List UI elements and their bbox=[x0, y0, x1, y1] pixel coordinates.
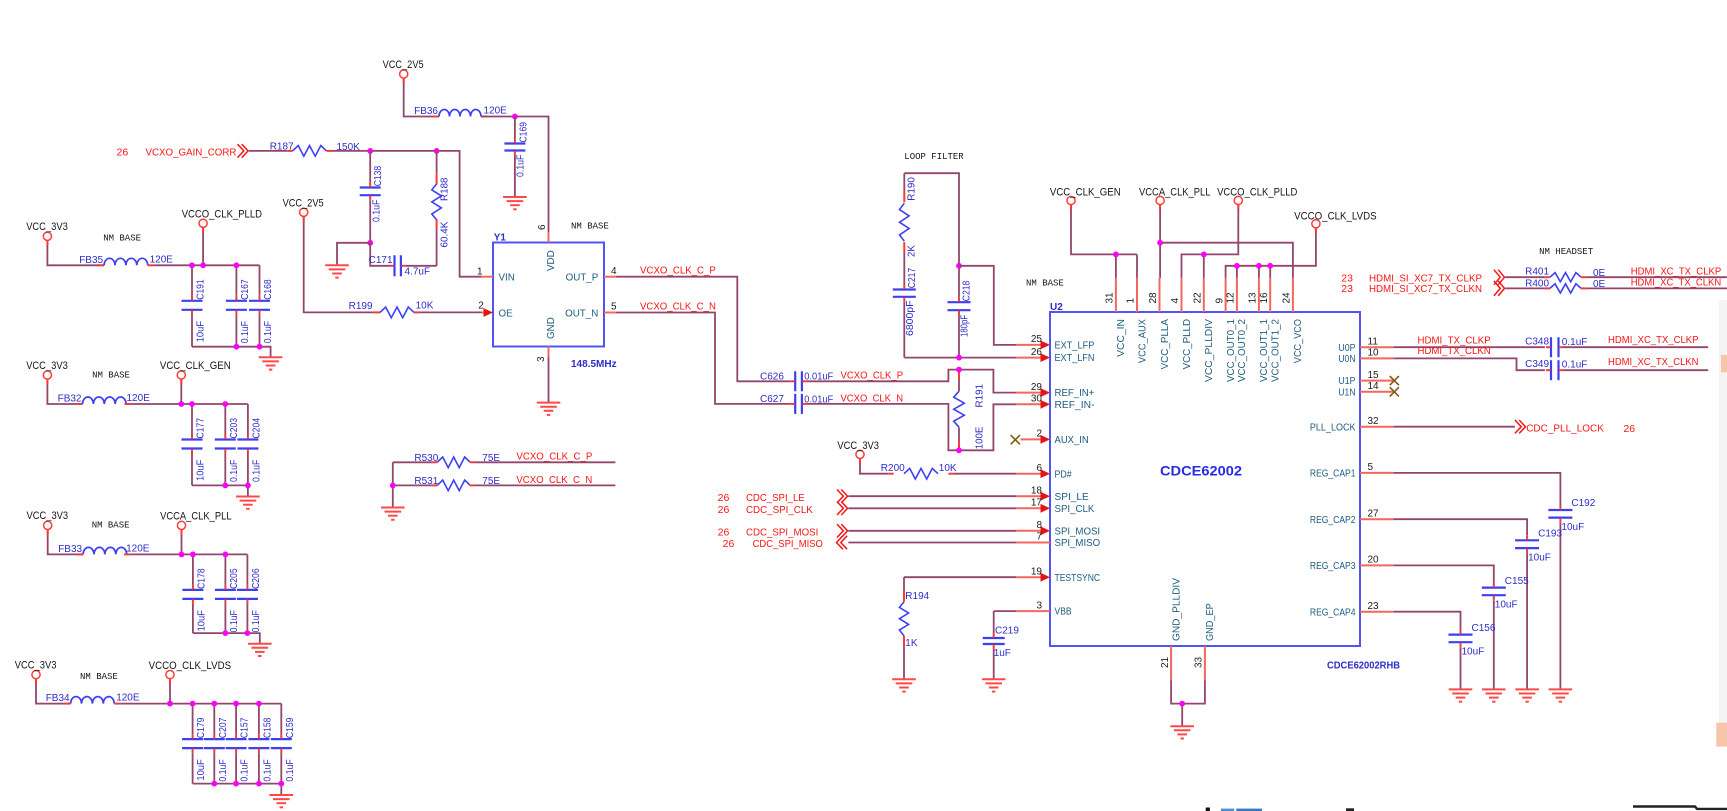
svg-text:120E: 120E bbox=[116, 693, 140, 704]
resistor R194 1K bbox=[903, 577, 905, 590]
svg-text:28: 28 bbox=[1148, 292, 1159, 304]
ground (Y1) bbox=[537, 403, 561, 415]
svg-text:C168: C168 bbox=[263, 279, 274, 300]
svg-text:10K: 10K bbox=[939, 463, 957, 474]
svg-text:C159: C159 bbox=[285, 717, 296, 738]
junction dots bottom rail bbox=[222, 483, 228, 489]
svg-text:VCXO_GAIN_CORR: VCXO_GAIN_CORR bbox=[146, 147, 237, 159]
svg-text:26: 26 bbox=[117, 146, 129, 158]
junction node C218 top bbox=[956, 263, 962, 269]
capacitor C191 10uF bbox=[191, 265, 193, 296]
wire C627 to REF_IN- bbox=[807, 404, 1017, 450]
U2 pin 18 SPI_LE bbox=[1016, 495, 1043, 497]
svg-text:10uF: 10uF bbox=[1528, 552, 1551, 563]
svg-text:0.1uF: 0.1uF bbox=[285, 759, 296, 781]
wire VCC_3V3 to ferrite bbox=[36, 679, 71, 704]
U2 pin 10 U0N bbox=[1360, 357, 1394, 359]
resistor R187 150K bbox=[287, 150, 292, 152]
svg-text:0.1uF: 0.1uF bbox=[240, 321, 251, 343]
junction dots top rail bbox=[179, 552, 185, 558]
power symbol VCCO_CLK_LVDS bbox=[1312, 220, 1320, 228]
wire R187 to Y1 VIN bbox=[332, 151, 482, 277]
U2 pin 12 VCC_OUT0_2 bbox=[1236, 278, 1238, 312]
wire REG_CAP to C192 bbox=[1394, 473, 1561, 505]
wire VCCA_CLK_PLL rail bbox=[1160, 205, 1293, 278]
svg-text:FB34: FB34 bbox=[46, 693, 70, 704]
svg-text:30: 30 bbox=[1031, 394, 1043, 405]
wire C349 to HDMI_XC_TX_CLKN bbox=[1564, 369, 1709, 371]
svg-text:CDC_SPI_LE: CDC_SPI_LE bbox=[746, 492, 805, 504]
svg-text:17: 17 bbox=[1031, 498, 1043, 509]
wire Y1 GND to ground bbox=[548, 357, 550, 403]
svg-text:C157: C157 bbox=[240, 717, 251, 738]
svg-text:C626: C626 bbox=[760, 371, 784, 382]
svg-text:4: 4 bbox=[611, 266, 617, 277]
svg-text:0.1uF: 0.1uF bbox=[229, 460, 240, 482]
wire CDC_SPI_LE bbox=[848, 495, 1016, 497]
svg-text:60.4K: 60.4K bbox=[440, 221, 451, 247]
Y1 pin 3 GND bbox=[548, 347, 550, 358]
svg-text:C203: C203 bbox=[229, 418, 240, 439]
svg-text:VCXO_CLK_C_N: VCXO_CLK_C_N bbox=[516, 474, 592, 486]
wire CDC_SPI_CLK bbox=[848, 507, 1016, 509]
wire REG_CAP to C155 bbox=[1394, 565, 1494, 582]
svg-text:21: 21 bbox=[1160, 656, 1171, 668]
power symbol VCC_2V5 (left) bbox=[300, 208, 308, 216]
power symbol VCC_3V3 (FB32 block) bbox=[43, 371, 51, 379]
resistor R188 60.4K bbox=[436, 151, 438, 173]
wire HDMI N to edge bbox=[1586, 287, 1727, 289]
svg-text:VCC_OUT1_1: VCC_OUT1_1 bbox=[1259, 319, 1270, 382]
net port CDC_PLL_LOCK bbox=[1394, 426, 1515, 428]
capacitor C205 0.1uF bbox=[224, 554, 226, 585]
power symbol VCC_3V3 (PD#) bbox=[856, 450, 864, 458]
svg-text:VCCO_CLK_LVDS: VCCO_CLK_LVDS bbox=[1294, 211, 1377, 223]
wire VCC_3V3 to ferrite bbox=[48, 530, 83, 555]
capacitor C155 10uF bbox=[1482, 586, 1506, 588]
svg-text:5: 5 bbox=[611, 301, 617, 312]
wire VCCO_CLK_PLLD rail bbox=[1182, 205, 1239, 278]
power symbol VCC_CLK_GEN bbox=[177, 371, 185, 379]
svg-text:C191: C191 bbox=[196, 279, 207, 300]
Y1 pin 4 OUT_P bbox=[604, 276, 616, 278]
oscillator Y1 148.5MHz bbox=[493, 243, 604, 347]
wire FB36 to Y1 VDD bbox=[481, 117, 549, 233]
power symbol VCC_3V3 (FB33 block) bbox=[44, 521, 52, 529]
ground (C169) bbox=[503, 197, 527, 209]
svg-text:12: 12 bbox=[1226, 292, 1237, 304]
ground bbox=[236, 497, 260, 509]
ground (C192) bbox=[1549, 689, 1573, 701]
svg-text:VCC_3V3: VCC_3V3 bbox=[26, 360, 68, 372]
wire GND pins to ground bbox=[1171, 680, 1205, 726]
wire R530 stub bbox=[476, 461, 616, 463]
svg-text:U0P: U0P bbox=[1338, 343, 1356, 354]
junction dots top rail bbox=[178, 401, 184, 407]
wire R531 stub bbox=[476, 484, 616, 486]
svg-text:VCC_PLLA: VCC_PLLA bbox=[1160, 319, 1171, 370]
capacitor C349 0.1uF bbox=[1550, 360, 1552, 380]
svg-text:NM BASE: NM BASE bbox=[103, 233, 141, 243]
svg-text:VCC_VCO: VCC_VCO bbox=[1293, 319, 1304, 363]
U2 pin 29 REF_IN+ bbox=[1016, 392, 1043, 394]
svg-text:14: 14 bbox=[1368, 381, 1380, 392]
svg-text:C192: C192 bbox=[1571, 498, 1595, 509]
junction node R191 top bbox=[956, 367, 962, 373]
svg-text:4.7uF: 4.7uF bbox=[405, 266, 431, 277]
svg-text:0.1uF: 0.1uF bbox=[229, 610, 240, 632]
svg-text:2: 2 bbox=[1036, 429, 1042, 440]
wire R199 to Y1 OE bbox=[419, 311, 483, 313]
svg-text:VCC_OUT0_2: VCC_OUT0_2 bbox=[1237, 319, 1248, 382]
svg-text:NM BASE: NM BASE bbox=[92, 371, 130, 381]
svg-text:0.1uF: 0.1uF bbox=[1562, 360, 1588, 371]
IC U2 CDCE62002 bbox=[1050, 312, 1360, 646]
wire CDC_SPI_MISO bbox=[848, 542, 1016, 544]
svg-text:VCCA_CLK_PLL: VCCA_CLK_PLL bbox=[1139, 186, 1211, 198]
svg-text:10K: 10K bbox=[416, 301, 434, 312]
svg-text:120E: 120E bbox=[126, 543, 150, 554]
svg-text:10uF: 10uF bbox=[196, 759, 207, 780]
svg-text:U1N: U1N bbox=[1338, 387, 1355, 398]
svg-text:U0N: U0N bbox=[1338, 354, 1355, 365]
svg-text:VDD: VDD bbox=[546, 250, 557, 271]
svg-text:TESTSYNC: TESTSYNC bbox=[1055, 573, 1101, 584]
capacitor C177 10uF bbox=[191, 404, 193, 435]
power symbol VCCA_CLK_PLL bbox=[177, 521, 185, 529]
svg-text:29: 29 bbox=[1031, 382, 1043, 393]
svg-text:VCCO_CLK_LVDS: VCCO_CLK_LVDS bbox=[149, 660, 232, 672]
svg-text:120E: 120E bbox=[484, 105, 508, 116]
svg-text:27: 27 bbox=[1368, 508, 1380, 519]
resistor R531 75E bbox=[393, 484, 432, 486]
wire VCC_3V3 to R200 bbox=[860, 459, 888, 474]
no-connect U1N bbox=[1390, 387, 1399, 396]
wire C171 to R188 bbox=[406, 265, 437, 267]
svg-text:SPI_MISO: SPI_MISO bbox=[1055, 538, 1101, 549]
wire port to R187 bbox=[249, 150, 287, 152]
svg-text:10: 10 bbox=[1368, 348, 1380, 359]
U2 pin 33 GND_EP bbox=[1204, 646, 1206, 680]
junction node C138 bottom bbox=[367, 240, 373, 246]
capacitor C157 0.1uF bbox=[235, 704, 237, 735]
svg-text:CDCE62002: CDCE62002 bbox=[1160, 464, 1242, 479]
svg-text:120E: 120E bbox=[127, 393, 151, 404]
junction dots top rail bbox=[167, 701, 173, 707]
ground bbox=[270, 795, 294, 807]
junction nodes LVDS rail bbox=[1234, 263, 1240, 269]
capacitor C217 6800pF bbox=[893, 288, 916, 290]
svg-text:VCC_CLK_GEN: VCC_CLK_GEN bbox=[1050, 186, 1121, 198]
Y1 pin 6 VDD bbox=[548, 232, 550, 243]
wire VCC_2V5 to R199 bbox=[304, 216, 375, 312]
wire VCXO_CLK_C_P bbox=[616, 277, 790, 382]
svg-text:OE: OE bbox=[499, 308, 514, 319]
svg-text:4: 4 bbox=[1170, 298, 1181, 304]
svg-text:NM BASE: NM BASE bbox=[1026, 279, 1064, 289]
U2 pin 17 SPI_CLK bbox=[1016, 507, 1043, 509]
power symbol VCCO_CLK_PLLD bbox=[199, 219, 207, 227]
svg-text:1: 1 bbox=[477, 266, 483, 277]
svg-text:C167: C167 bbox=[240, 279, 251, 300]
Y1 pin 2 OE bbox=[482, 312, 485, 314]
svg-text:C207: C207 bbox=[218, 717, 229, 738]
svg-text:0.1uF: 0.1uF bbox=[263, 321, 274, 343]
ferrite bead FB33 bbox=[77, 553, 83, 555]
U2 pin 32 PLL_LOCK bbox=[1360, 426, 1394, 428]
svg-text:10uF: 10uF bbox=[1561, 522, 1584, 533]
svg-text:C158: C158 bbox=[262, 717, 273, 738]
junction node GND bbox=[1179, 701, 1185, 707]
wire VBB bbox=[994, 610, 1017, 612]
svg-text:0.1uF: 0.1uF bbox=[240, 759, 251, 781]
svg-text:6: 6 bbox=[537, 224, 548, 230]
wire TESTSYNC bbox=[904, 576, 1016, 578]
svg-text:R199: R199 bbox=[349, 301, 373, 312]
capacitor C138 0.1uF bbox=[369, 151, 371, 183]
U2 pin 16 VCC_OUT1_2 bbox=[1269, 278, 1271, 312]
capacitor C207 0.1uF bbox=[213, 704, 215, 735]
svg-text:VCC_2V5: VCC_2V5 bbox=[283, 198, 324, 210]
wire C138 bottom to ground bbox=[337, 243, 370, 265]
svg-text:VBB: VBB bbox=[1055, 607, 1073, 618]
svg-text:0.1uF: 0.1uF bbox=[251, 460, 262, 482]
U2 pin 20 REG_CAP3 bbox=[1360, 564, 1394, 566]
ground (C193) bbox=[1515, 689, 1539, 701]
junction node R531 bbox=[390, 483, 396, 489]
resistor R199 10K bbox=[375, 311, 381, 313]
ground (U2 EP) bbox=[1170, 726, 1194, 738]
svg-text:PLL_LOCK: PLL_LOCK bbox=[1310, 422, 1356, 433]
wire C626 to REF_IN+ bbox=[807, 370, 1017, 393]
svg-text:10uF: 10uF bbox=[196, 460, 207, 481]
bottom logo fragment bbox=[1206, 808, 1210, 811]
svg-text:VCC_OUT0_1: VCC_OUT0_1 bbox=[1226, 319, 1237, 382]
svg-text:0.1uF: 0.1uF bbox=[262, 759, 273, 781]
svg-text:SPI_MOSI: SPI_MOSI bbox=[1055, 526, 1101, 537]
svg-text:FB35: FB35 bbox=[79, 255, 103, 266]
svg-text:1uF: 1uF bbox=[994, 648, 1011, 659]
svg-text:VCXO_CLK_P: VCXO_CLK_P bbox=[841, 370, 904, 382]
ferrite bead FB34 bbox=[65, 703, 71, 705]
svg-text:26: 26 bbox=[723, 538, 735, 550]
svg-text:OUT_P: OUT_P bbox=[566, 273, 599, 284]
U2 pin 2 AUX_IN bbox=[1021, 438, 1044, 440]
page edge shading bbox=[1719, 300, 1727, 727]
svg-text:23: 23 bbox=[1368, 601, 1380, 612]
svg-text:REF_IN-: REF_IN- bbox=[1055, 400, 1095, 411]
svg-text:C179: C179 bbox=[196, 717, 207, 738]
wire VCCO_CLK_PLLD rail bbox=[202, 227, 204, 265]
wire VCCA_CLK_PLL rail bbox=[181, 530, 183, 555]
svg-text:C138: C138 bbox=[373, 165, 384, 186]
svg-text:NM BASE: NM BASE bbox=[80, 672, 118, 682]
U2 pin 22 VCC_PLLDIV bbox=[1203, 278, 1205, 312]
svg-text:C155: C155 bbox=[1505, 576, 1529, 587]
U2 pin 27 REG_CAP2 bbox=[1360, 518, 1394, 520]
svg-text:26: 26 bbox=[718, 492, 730, 504]
wire VCC_2V5 to FB36 bbox=[404, 78, 439, 116]
svg-text:10uF: 10uF bbox=[1462, 646, 1485, 657]
capacitor C193 10uF bbox=[1515, 539, 1539, 541]
svg-text:LOOP FILTER: LOOP FILTER bbox=[904, 152, 964, 162]
svg-text:VCXO_CLK_C_P: VCXO_CLK_C_P bbox=[516, 451, 592, 463]
junction node pin22 bbox=[1201, 252, 1207, 258]
wire loop filter top bbox=[904, 173, 959, 266]
ground (C156) bbox=[1449, 689, 1473, 701]
capacitor C169 0.1uF bbox=[514, 117, 516, 139]
U2 pin 4 VCC_PLLD bbox=[1181, 278, 1183, 312]
capacitor C171 4.7uF bbox=[393, 255, 395, 276]
svg-text:HDMI_XC_TX_CLKN: HDMI_XC_TX_CLKN bbox=[1608, 356, 1699, 368]
resistor R191 100E bbox=[958, 370, 960, 380]
junction node R191 bottom bbox=[956, 447, 962, 453]
power symbol VCC_CLK_GEN bbox=[1067, 196, 1075, 204]
svg-text:CDC_SPI_MOSI: CDC_SPI_MOSI bbox=[746, 526, 818, 538]
svg-text:C348: C348 bbox=[1525, 336, 1549, 347]
svg-text:C217: C217 bbox=[907, 267, 918, 288]
svg-text:1: 1 bbox=[1126, 298, 1137, 304]
svg-text:9: 9 bbox=[1214, 298, 1225, 304]
ferrite bead FB36 bbox=[433, 116, 439, 118]
resistor R400 0E bbox=[1545, 287, 1550, 289]
svg-text:SPI_CLK: SPI_CLK bbox=[1055, 504, 1095, 515]
svg-text:GND_PLLDIV: GND_PLLDIV bbox=[1171, 578, 1182, 641]
wire VCC_CLK_GEN rail bbox=[180, 379, 182, 404]
svg-text:2: 2 bbox=[478, 300, 484, 311]
svg-text:VCCO_CLK_PLLD: VCCO_CLK_PLLD bbox=[182, 209, 262, 221]
no-connect AUX_IN bbox=[1011, 435, 1020, 444]
U2 pin 11 U0P bbox=[1360, 346, 1394, 348]
power symbol VCC_3V3 (FB34 block) bbox=[32, 671, 40, 679]
svg-text:VIN: VIN bbox=[499, 273, 515, 284]
junction node pin31 bbox=[1113, 252, 1119, 258]
svg-text:REG_CAP1: REG_CAP1 bbox=[1310, 469, 1356, 480]
svg-text:C349: C349 bbox=[1525, 359, 1549, 370]
svg-text:6800pF: 6800pF bbox=[905, 301, 916, 337]
svg-text:VCXO_CLK_N: VCXO_CLK_N bbox=[841, 392, 904, 404]
power symbol VCCO_CLK_PLLD bbox=[1234, 196, 1242, 204]
svg-text:0.1uF: 0.1uF bbox=[372, 200, 383, 222]
svg-text:16: 16 bbox=[1259, 292, 1270, 304]
U2 pin 3 VBB bbox=[1016, 610, 1050, 612]
U2 pin 5 REG_CAP1 bbox=[1360, 472, 1394, 474]
wire C348 to HDMI_XC_TX_CLKP bbox=[1564, 346, 1709, 348]
wire VCCO_CLK_LVDS rail bbox=[169, 679, 171, 704]
svg-text:C178: C178 bbox=[196, 568, 207, 589]
svg-text:10uF: 10uF bbox=[196, 610, 207, 631]
svg-text:VCC_3V3: VCC_3V3 bbox=[27, 510, 69, 522]
svg-text:33: 33 bbox=[1194, 656, 1205, 668]
svg-text:FB33: FB33 bbox=[58, 544, 82, 555]
U2 pin 26 EXT_LFN bbox=[1016, 357, 1043, 359]
svg-text:C193: C193 bbox=[1538, 529, 1562, 540]
svg-text:VCC_3V3: VCC_3V3 bbox=[26, 221, 68, 233]
capacitor C204 0.1uF bbox=[247, 404, 249, 435]
svg-text:C156: C156 bbox=[1472, 623, 1496, 634]
junction dots bottom rail bbox=[234, 344, 240, 350]
svg-text:R400: R400 bbox=[1525, 278, 1549, 289]
svg-text:VCC_2V5: VCC_2V5 bbox=[383, 59, 424, 71]
svg-text:26: 26 bbox=[718, 504, 730, 516]
capacitor C156 10uF bbox=[1449, 633, 1473, 635]
svg-text:Y1: Y1 bbox=[494, 233, 507, 244]
svg-text:R187: R187 bbox=[270, 141, 294, 152]
svg-text:REF_IN+: REF_IN+ bbox=[1055, 388, 1095, 399]
svg-text:C177: C177 bbox=[196, 418, 207, 439]
svg-text:6: 6 bbox=[1036, 463, 1042, 474]
svg-text:0.1uF: 0.1uF bbox=[251, 610, 262, 632]
svg-text:R194: R194 bbox=[905, 591, 929, 602]
svg-text:FB36: FB36 bbox=[414, 106, 438, 117]
resistor R530 75E bbox=[393, 461, 432, 463]
svg-text:R401: R401 bbox=[1525, 267, 1549, 278]
svg-text:R200: R200 bbox=[881, 463, 905, 474]
svg-text:HDMI_XC_TX_CLKP: HDMI_XC_TX_CLKP bbox=[1608, 334, 1699, 346]
svg-text:5: 5 bbox=[1368, 462, 1374, 473]
svg-text:REG_CAP4: REG_CAP4 bbox=[1310, 607, 1356, 618]
svg-text:R531: R531 bbox=[414, 476, 438, 487]
svg-text:VCCO_CLK_PLLD: VCCO_CLK_PLLD bbox=[1217, 186, 1297, 198]
svg-text:OUT_N: OUT_N bbox=[565, 308, 598, 319]
svg-text:C204: C204 bbox=[251, 418, 262, 439]
svg-text:C206: C206 bbox=[251, 568, 262, 589]
svg-text:C169: C169 bbox=[518, 122, 529, 143]
U2 pin 14 U1N bbox=[1360, 391, 1394, 393]
junction node EXT_LFN bbox=[956, 355, 962, 361]
ground bbox=[259, 357, 283, 369]
svg-text:8: 8 bbox=[1036, 520, 1042, 531]
ferrite bead FB32 bbox=[77, 403, 83, 405]
capacitor C219 1uF bbox=[993, 611, 995, 633]
svg-text:VCCA_CLK_PLL: VCCA_CLK_PLL bbox=[160, 511, 232, 523]
svg-text:11: 11 bbox=[1368, 336, 1379, 347]
svg-text:15: 15 bbox=[1368, 370, 1380, 381]
svg-text:26: 26 bbox=[718, 526, 730, 538]
svg-text:VCC_PLLD: VCC_PLLD bbox=[1182, 319, 1193, 369]
svg-text:NM BASE: NM BASE bbox=[571, 222, 609, 232]
svg-text:AUX_IN: AUX_IN bbox=[1055, 435, 1089, 446]
ground (R194) bbox=[892, 679, 916, 691]
svg-text:3: 3 bbox=[536, 356, 547, 362]
svg-text:25: 25 bbox=[1031, 334, 1043, 345]
resistor R200 10K bbox=[888, 473, 893, 475]
wire R200 to PD# bbox=[954, 473, 1017, 475]
no-connect U1P bbox=[1390, 376, 1399, 385]
wire bottom rail bbox=[193, 633, 260, 644]
svg-text:148.5MHz: 148.5MHz bbox=[571, 359, 617, 370]
U2 pin 25 EXT_LFP bbox=[1016, 344, 1043, 346]
power symbol VCCA_CLK_PLL bbox=[1156, 196, 1164, 204]
resistor R401 0E bbox=[1545, 276, 1550, 278]
svg-text:R191: R191 bbox=[975, 384, 986, 408]
svg-text:VCXO_CLK_C_P: VCXO_CLK_C_P bbox=[640, 265, 716, 277]
svg-text:C627: C627 bbox=[760, 394, 784, 405]
svg-text:CDC_SPI_CLK: CDC_SPI_CLK bbox=[746, 504, 813, 516]
wire VCC_3V3 to ferrite bbox=[47, 379, 82, 404]
svg-text:HDMI_TX_CLKN: HDMI_TX_CLKN bbox=[1418, 345, 1491, 357]
svg-text:23: 23 bbox=[1341, 283, 1353, 295]
U2 pin 21 GND_PLLDIV bbox=[1170, 646, 1172, 680]
capacitor C178 10uF bbox=[192, 554, 194, 585]
U2 pin 31 VCC_IN bbox=[1115, 278, 1117, 312]
U2 pin 13 VCC_OUT1_1 bbox=[1258, 278, 1260, 312]
svg-text:0.1uF: 0.1uF bbox=[218, 759, 229, 781]
svg-text:EXT_LFP: EXT_LFP bbox=[1055, 341, 1095, 352]
svg-text:EXT_LFN: EXT_LFN bbox=[1055, 353, 1095, 364]
svg-text:REG_CAP3: REG_CAP3 bbox=[1310, 561, 1356, 572]
svg-text:10uF: 10uF bbox=[1495, 599, 1518, 610]
